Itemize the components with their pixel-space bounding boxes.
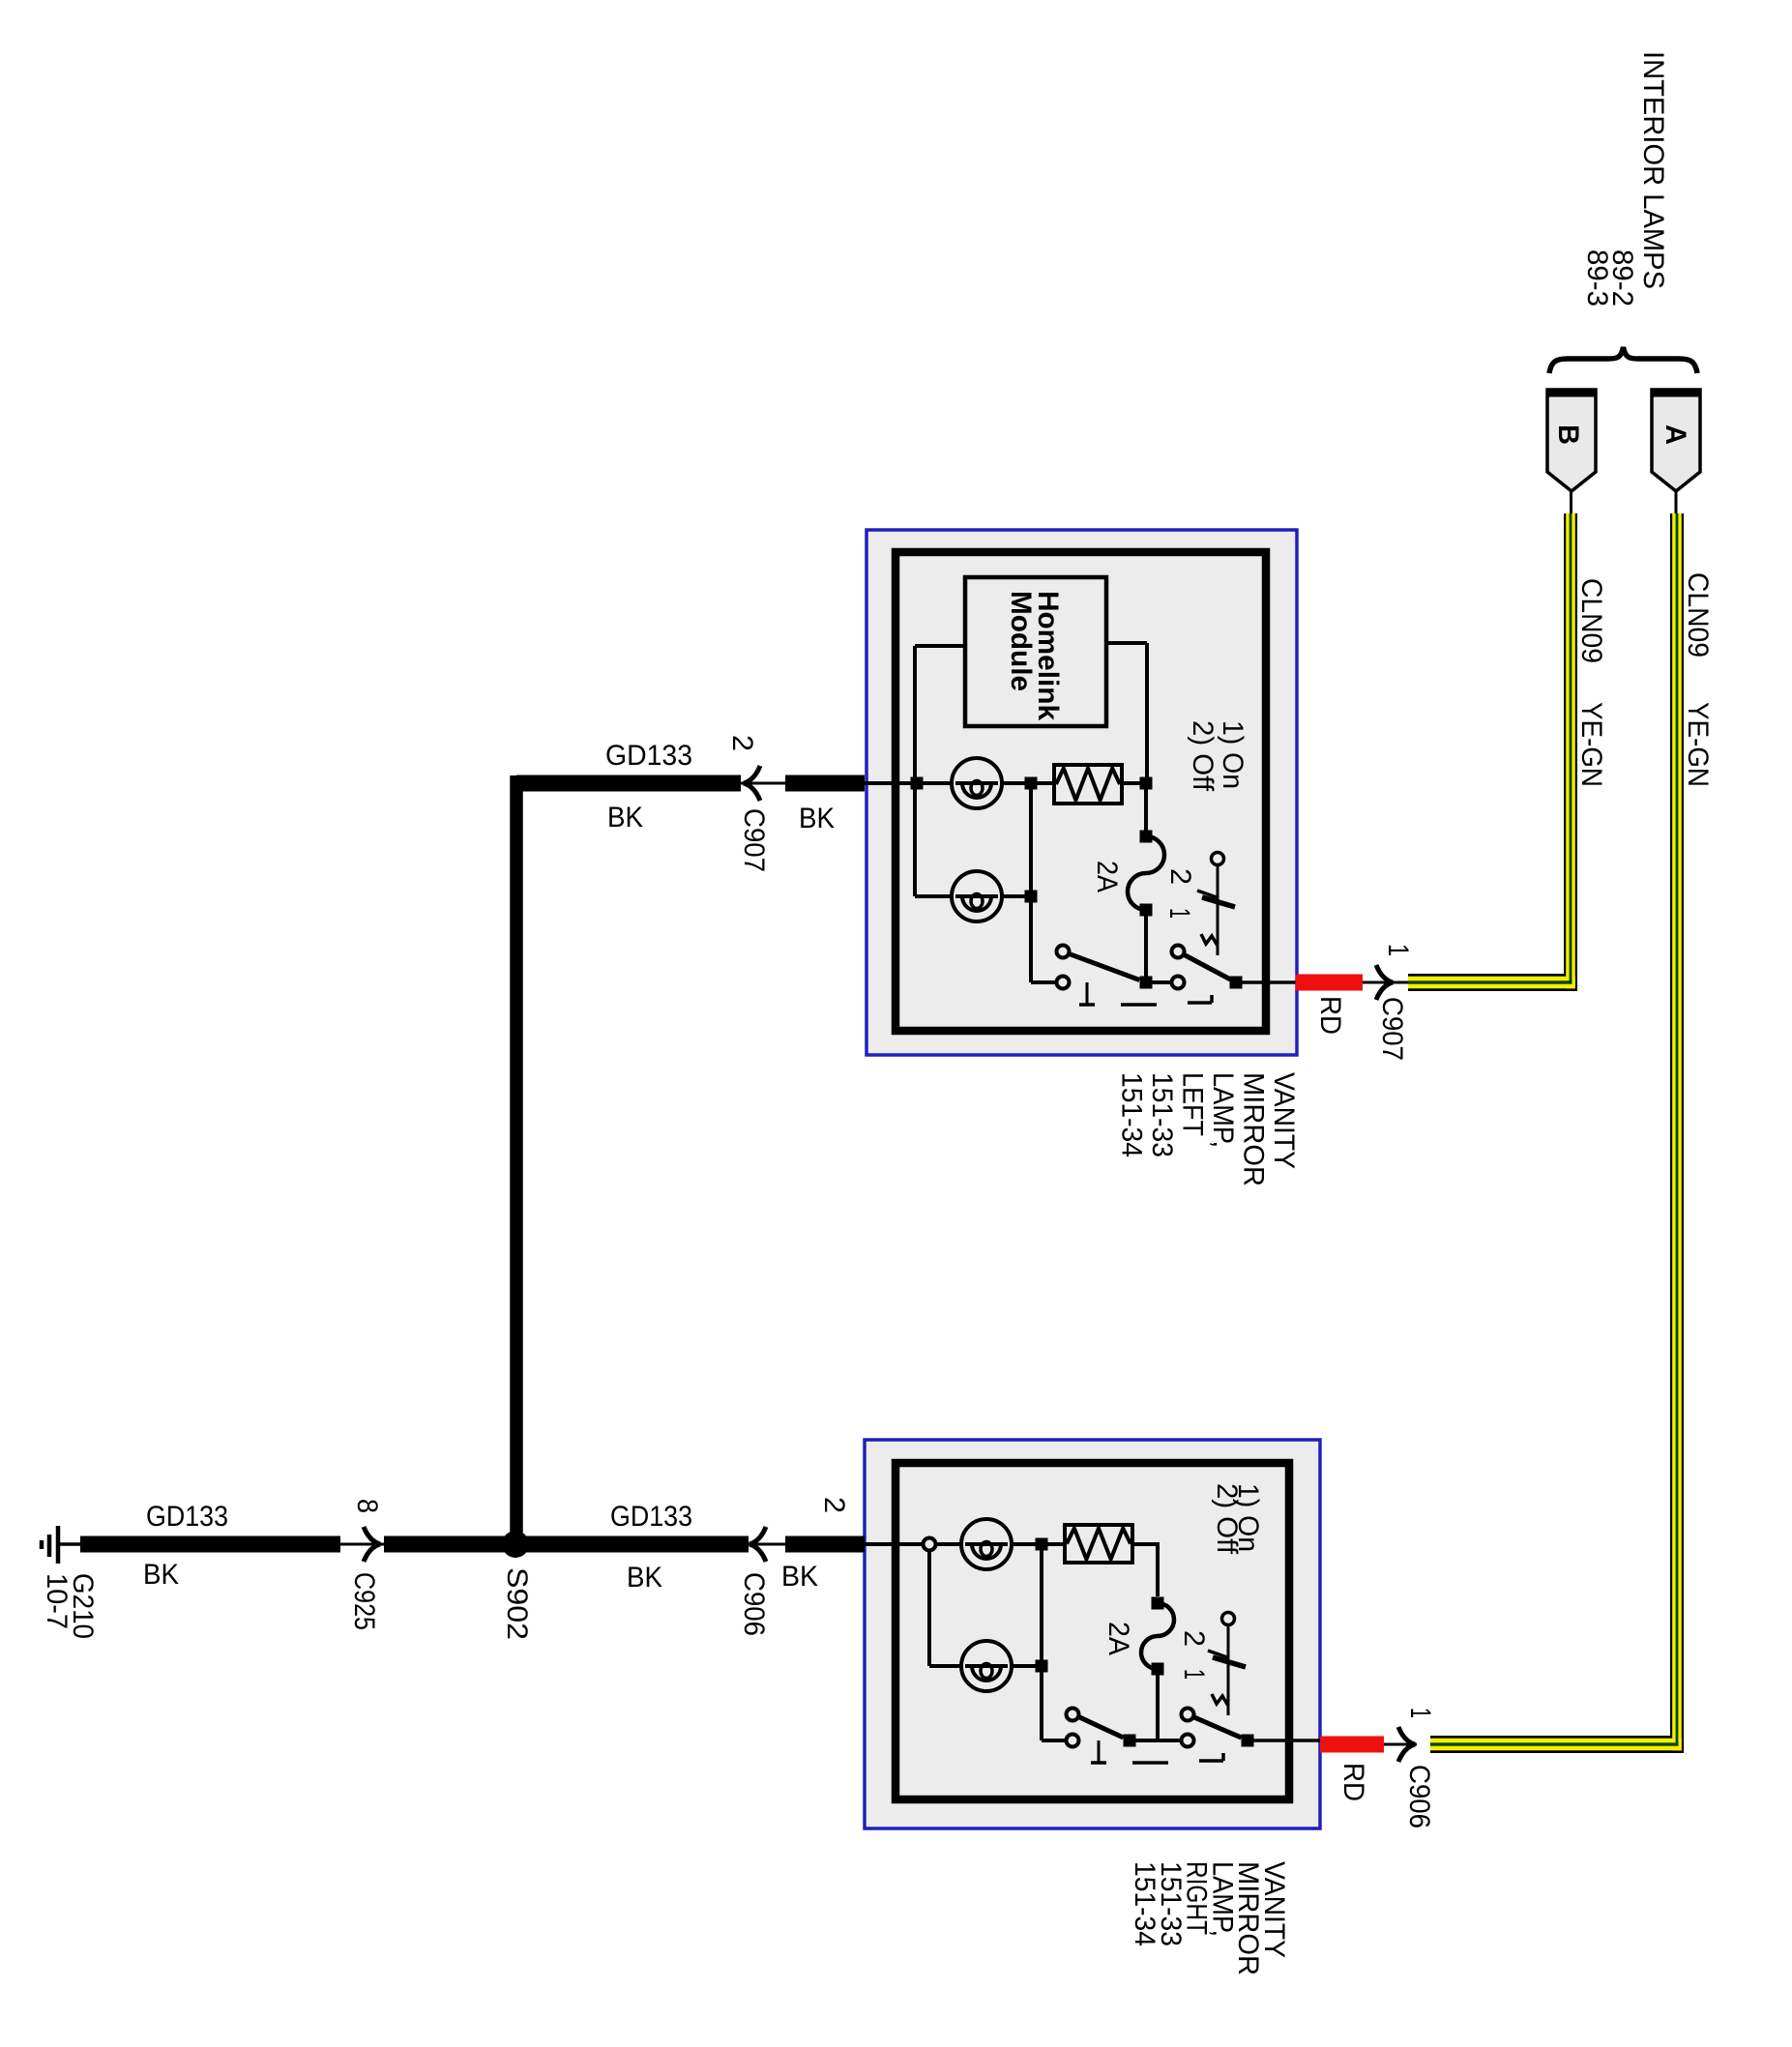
- svg-text:151-33: 151-33: [1146, 1072, 1178, 1157]
- svg-text:BK: BK: [799, 803, 835, 834]
- svg-text:C925: C925: [348, 1572, 380, 1630]
- svg-text:S902: S902: [501, 1567, 533, 1640]
- svg-text:1: 1: [1163, 908, 1195, 919]
- svg-text:2: 2: [1164, 868, 1196, 885]
- svg-text:1: 1: [1382, 944, 1414, 956]
- svg-text:MIRROR: MIRROR: [1238, 1072, 1270, 1186]
- svg-text:1: 1: [1404, 1708, 1436, 1718]
- svg-text:CLN09: CLN09: [1682, 572, 1714, 658]
- svg-text:C907: C907: [1376, 997, 1408, 1061]
- svg-text:10-7: 10-7: [41, 1573, 73, 1629]
- svg-text:BK: BK: [607, 802, 643, 833]
- svg-text:RD: RD: [1337, 1763, 1369, 1801]
- svg-text:Module: Module: [1005, 591, 1037, 691]
- svg-text:2: 2: [818, 1497, 850, 1513]
- svg-text:GD133: GD133: [146, 1501, 228, 1533]
- svg-text:A: A: [1660, 424, 1691, 445]
- svg-text:BK: BK: [143, 1559, 179, 1591]
- svg-text:GD133: GD133: [605, 740, 692, 772]
- svg-text:BK: BK: [627, 1562, 662, 1594]
- svg-text:LEFT: LEFT: [1177, 1072, 1209, 1136]
- svg-text:1) On: 1) On: [1217, 720, 1249, 789]
- svg-text:2: 2: [726, 735, 758, 751]
- svg-text:INTERIOR LAMPS: INTERIOR LAMPS: [1637, 51, 1669, 289]
- svg-text:89-3: 89-3: [1581, 249, 1613, 307]
- svg-text:2: 2: [1178, 1630, 1210, 1647]
- svg-text:RD: RD: [1314, 996, 1346, 1035]
- svg-text:CLN09: CLN09: [1575, 578, 1607, 663]
- svg-text:1: 1: [1178, 1669, 1210, 1680]
- svg-text:VANITY: VANITY: [1268, 1072, 1300, 1169]
- svg-text:YE-GN: YE-GN: [1575, 702, 1607, 787]
- svg-text:151-34: 151-34: [1116, 1072, 1148, 1157]
- svg-text:2) Off: 2) Off: [1211, 1483, 1243, 1555]
- svg-text:YE-GN: YE-GN: [1682, 702, 1714, 787]
- svg-text:151-34: 151-34: [1129, 1861, 1160, 1946]
- svg-text:C906: C906: [738, 1572, 770, 1636]
- svg-text:8: 8: [351, 1499, 383, 1513]
- svg-text:B: B: [1552, 424, 1584, 445]
- svg-text:2A: 2A: [1091, 861, 1123, 892]
- svg-text:C907: C907: [738, 808, 770, 872]
- svg-text:GD133: GD133: [610, 1501, 692, 1533]
- svg-text:2) Off: 2) Off: [1187, 720, 1219, 792]
- svg-text:BK: BK: [781, 1561, 818, 1593]
- svg-text:LAMP,: LAMP,: [1207, 1072, 1239, 1148]
- svg-text:C906: C906: [1403, 1765, 1435, 1828]
- svg-text:2A: 2A: [1102, 1622, 1134, 1655]
